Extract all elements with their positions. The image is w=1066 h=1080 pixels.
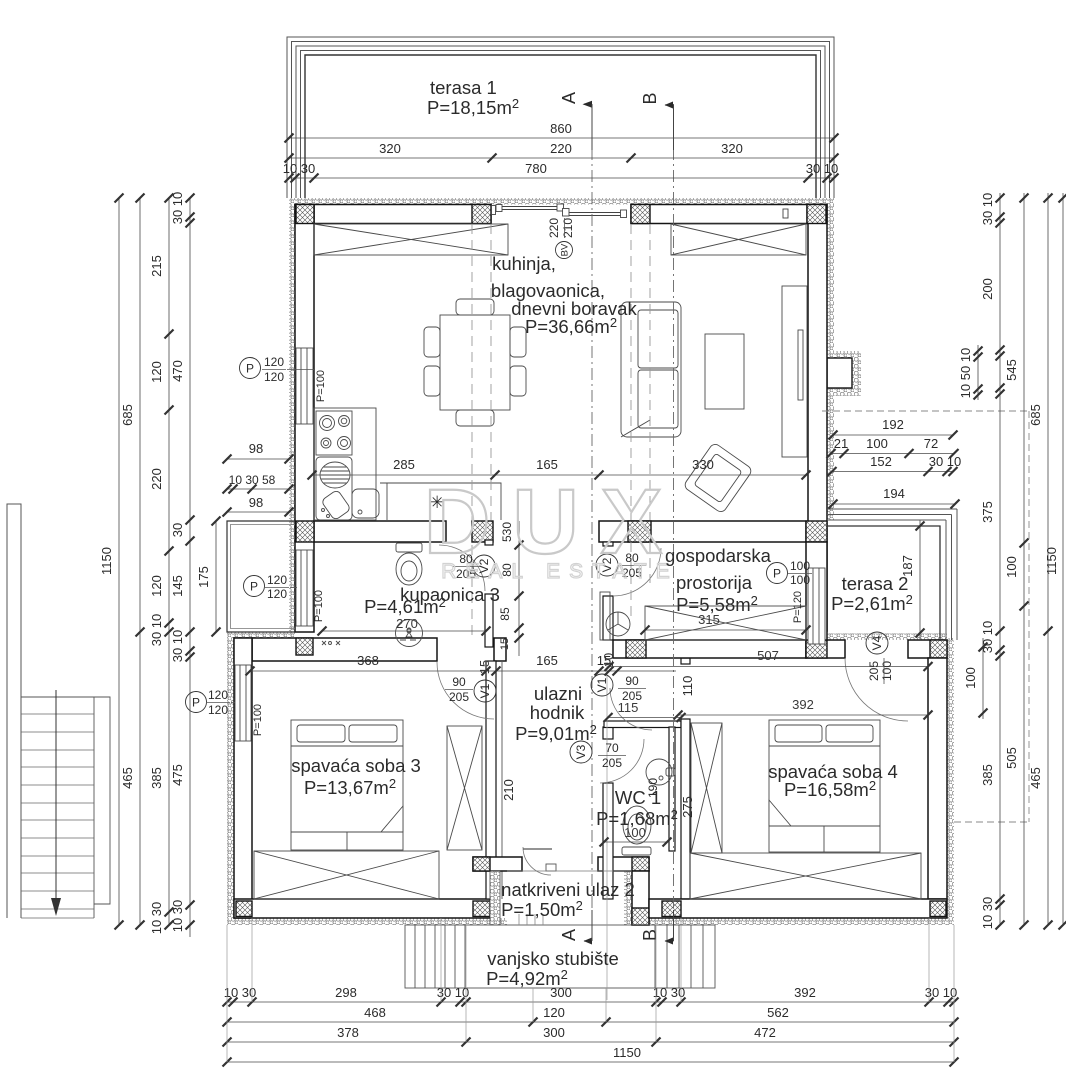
svg-text:375: 375 xyxy=(980,501,995,523)
bed 4 xyxy=(769,720,880,852)
section label A bottom xyxy=(559,910,592,945)
gospodarska bench crossed xyxy=(645,606,806,640)
svg-text:10 30: 10 30 xyxy=(170,900,185,933)
svg-text:P=4,92m2: P=4,92m2 xyxy=(486,967,568,989)
left stair treads xyxy=(21,714,94,918)
WC sink xyxy=(646,759,675,785)
porch right wall xyxy=(632,871,649,925)
svg-text:152: 152 xyxy=(870,454,892,469)
svg-text:10 30: 10 30 xyxy=(224,985,257,1000)
svg-text:90: 90 xyxy=(452,675,466,689)
svg-text:21: 21 xyxy=(834,436,848,451)
svg-text:210: 210 xyxy=(561,218,575,238)
svg-text:hodnik: hodnik xyxy=(530,702,585,723)
rotated dim texts misc xyxy=(501,676,695,818)
hall east wall lower segment xyxy=(603,783,613,899)
svg-text:110: 110 xyxy=(680,676,695,697)
stove xyxy=(316,411,352,455)
bedroom3 east partition xyxy=(486,661,496,899)
svg-text:spavaća soba 3: spavaća soba 3 xyxy=(291,755,421,776)
svg-text:120: 120 xyxy=(543,1005,565,1020)
door bedroom3 V1 arc xyxy=(437,662,494,719)
terrace 1 railing outer lines xyxy=(287,37,834,198)
column porch right bottom xyxy=(632,908,649,925)
svg-text:270: 270 xyxy=(396,616,418,631)
svg-text:terasa 1: terasa 1 xyxy=(430,77,497,98)
svg-text:P=36,66m2: P=36,66m2 xyxy=(525,315,617,337)
insulation niche bottom strip xyxy=(227,632,295,639)
dim 100 WC xyxy=(604,841,667,843)
svg-text:30 10: 30 10 xyxy=(806,161,839,176)
door terasa2 V4 arc xyxy=(845,658,908,721)
window niche left 120 xyxy=(296,550,313,626)
svg-text:562: 562 xyxy=(767,1005,789,1020)
svg-text:300: 300 xyxy=(543,1025,565,1040)
bedroom3 top wall right part xyxy=(494,638,506,661)
svg-text:30 10: 30 10 xyxy=(170,192,185,225)
svg-text:165: 165 xyxy=(536,457,558,472)
entrance door arc xyxy=(523,847,551,875)
niche outer rect xyxy=(227,521,295,632)
terasa2 south wall right part xyxy=(908,640,947,658)
living top cabinets crossed xyxy=(671,224,806,255)
svg-text:V1: V1 xyxy=(478,683,492,698)
dim 270 kupaonica xyxy=(322,630,486,632)
svg-text:P: P xyxy=(192,696,200,710)
svg-text:100: 100 xyxy=(866,436,888,451)
column gospodarska west xyxy=(628,521,651,542)
svg-text:100: 100 xyxy=(790,559,810,573)
chimney hole xyxy=(827,358,852,388)
left exterior wall lower xyxy=(234,638,252,918)
svg-text:30 10: 30 10 xyxy=(149,614,164,647)
bathroom floor drain circle xyxy=(396,620,423,647)
door gospodarska V2 arc xyxy=(613,548,661,596)
column right wall junction xyxy=(806,521,827,542)
section line B xyxy=(673,104,675,941)
entrance door leaf xyxy=(523,848,552,850)
svg-text:10 30: 10 30 xyxy=(283,161,316,176)
insulation left wall upper xyxy=(289,198,295,632)
partition kupaonica east jamb top xyxy=(485,540,493,545)
svg-text:120: 120 xyxy=(267,587,287,601)
section line A xyxy=(591,104,593,941)
svg-text:330: 330 xyxy=(692,457,714,472)
svg-text:P=100: P=100 xyxy=(252,704,264,736)
svg-text:120: 120 xyxy=(149,575,164,597)
svg-text:860: 860 xyxy=(550,121,572,136)
bedroom3 top wall left part xyxy=(252,638,437,661)
svg-text:1150: 1150 xyxy=(99,547,114,575)
top wall left segment xyxy=(295,205,491,224)
column porch stub left xyxy=(473,857,490,871)
insulation right wall lower xyxy=(947,638,954,925)
svg-text:30 10: 30 10 xyxy=(925,985,958,1000)
svg-text:prostorija: prostorija xyxy=(676,572,753,593)
svg-text:205: 205 xyxy=(449,690,469,704)
kitchen top cabinets crossed xyxy=(314,224,508,255)
svg-text:10 30: 10 30 xyxy=(653,985,686,1000)
insulation bottom left wing xyxy=(227,918,507,925)
svg-text:A: A xyxy=(559,92,579,104)
external stairs outline xyxy=(405,925,715,988)
insulation right wall upper xyxy=(827,198,834,351)
V4 rotated labels xyxy=(867,661,894,681)
sliding door panel 1 xyxy=(492,204,789,218)
porch left insulation band xyxy=(490,871,500,925)
svg-text:120: 120 xyxy=(264,355,284,369)
bedroom3 wardrobe low crossed xyxy=(254,851,439,899)
svg-text:90: 90 xyxy=(625,674,639,688)
svg-text:165: 165 xyxy=(536,653,558,668)
svg-text:192: 192 xyxy=(882,417,904,432)
svg-text:P=5,58m2: P=5,58m2 xyxy=(676,593,758,615)
door WC V3 arc xyxy=(600,739,644,783)
svg-text:120: 120 xyxy=(208,703,228,717)
column porch stub right xyxy=(632,857,649,871)
bedroom4 west wall jamb xyxy=(681,658,690,664)
top wall right segment xyxy=(631,205,827,224)
svg-text:275: 275 xyxy=(680,796,695,818)
svg-text:507: 507 xyxy=(757,648,779,663)
insulation right wall mid xyxy=(827,396,834,520)
terasa2 railing horizontals xyxy=(827,509,957,640)
svg-text:220: 220 xyxy=(149,468,164,490)
svg-text:210: 210 xyxy=(501,779,516,801)
svg-text:465: 465 xyxy=(1028,767,1043,789)
left exterior wall upper xyxy=(295,205,314,633)
column at left wall junction xyxy=(296,521,314,542)
gospodarska west wall lower xyxy=(603,596,613,640)
svg-text:P: P xyxy=(250,580,258,594)
WC toilet xyxy=(622,806,651,855)
svg-text:100: 100 xyxy=(790,573,810,587)
WC north wall xyxy=(604,721,681,728)
dim 392 bedroom4 xyxy=(678,714,928,716)
column mid (corridor west) xyxy=(472,521,493,542)
bedroom3 bottom wall xyxy=(234,899,490,918)
dining chairs xyxy=(424,299,526,426)
svg-text:120: 120 xyxy=(267,573,287,587)
WC west jamb xyxy=(603,727,613,739)
svg-text:10 30 58: 10 30 58 xyxy=(229,473,276,487)
stairs risers left xyxy=(415,925,465,988)
svg-text:120: 120 xyxy=(149,361,164,383)
porch steps xyxy=(519,914,543,925)
svg-text:B: B xyxy=(640,929,660,941)
svg-text:DUX: DUX xyxy=(424,471,684,573)
section label B top xyxy=(640,92,674,150)
svg-text:V1: V1 xyxy=(595,677,609,692)
left stair outline xyxy=(21,697,110,904)
svg-text:10 30: 10 30 xyxy=(980,897,995,930)
gospodarska west wall upper jamb xyxy=(603,542,613,546)
TV cabinet xyxy=(782,286,807,457)
svg-text:30: 30 xyxy=(170,523,185,537)
bedroom3 tall wardrobe crossed xyxy=(447,726,482,850)
svg-text:15: 15 xyxy=(477,660,492,674)
svg-text:P=9,01m2: P=9,01m2 xyxy=(515,722,597,744)
svg-text:ulazni: ulazni xyxy=(534,683,582,704)
svg-text:P=100: P=100 xyxy=(315,370,327,402)
svg-text:B: B xyxy=(640,92,660,104)
svg-text:545: 545 xyxy=(1004,359,1019,381)
svg-text:120: 120 xyxy=(264,370,284,384)
column gosp bottom xyxy=(626,640,646,658)
gospodarska east wall xyxy=(806,542,827,640)
svg-text:1150: 1150 xyxy=(613,1045,641,1060)
gospodarska washer xyxy=(606,612,630,636)
dim 507 xyxy=(609,666,928,668)
porch right stub wall xyxy=(598,857,649,871)
svg-text:468: 468 xyxy=(364,1005,386,1020)
vertical mini chain x519 xyxy=(518,521,520,656)
column right wing NE xyxy=(930,640,947,658)
column b3-top at old wall xyxy=(296,638,313,655)
svg-text:A: A xyxy=(559,929,579,941)
insulation chimney wrap xyxy=(827,351,861,396)
svg-text:100: 100 xyxy=(1004,556,1019,578)
kitchen counter vertical xyxy=(314,408,376,520)
svg-text:368: 368 xyxy=(357,653,379,668)
svg-text:30 10: 30 10 xyxy=(437,985,470,1000)
svg-text:215: 215 xyxy=(149,255,164,277)
svg-text:72: 72 xyxy=(924,436,938,451)
svg-text:P=4,61m2: P=4,61m2 xyxy=(364,595,446,617)
svg-text:320: 320 xyxy=(379,141,401,156)
dim 115 WC xyxy=(608,717,681,719)
svg-text:505: 505 xyxy=(1004,747,1019,769)
svg-text:320: 320 xyxy=(721,141,743,156)
dim 315 gospodarska xyxy=(645,629,806,631)
svg-text:378: 378 xyxy=(337,1025,359,1040)
svg-text:470: 470 xyxy=(170,360,185,382)
svg-text:V3: V3 xyxy=(574,744,588,759)
svg-text:BV: BV xyxy=(560,243,571,256)
terasa2 railing inner xyxy=(827,526,940,640)
svg-text:220: 220 xyxy=(547,218,561,238)
column b4 bottom left xyxy=(662,901,681,917)
window kitchen left 120 xyxy=(296,348,313,424)
svg-text:70: 70 xyxy=(605,741,619,755)
dim line 368/165 xyxy=(250,670,676,672)
svg-text:30 10: 30 10 xyxy=(980,621,995,654)
section label B bottom xyxy=(640,910,674,945)
living sofa xyxy=(621,302,681,437)
svg-text:194: 194 xyxy=(883,486,905,501)
window bedroom3 left 120 xyxy=(235,665,251,741)
partition kupaonica east lower xyxy=(485,594,493,647)
svg-text:natkriveni ulaz 2: natkriveni ulaz 2 xyxy=(501,879,635,900)
interior wall kitchen/bath left segment xyxy=(314,521,446,542)
svg-text:392: 392 xyxy=(794,985,816,1000)
svg-text:10 50 10: 10 50 10 xyxy=(958,348,973,399)
interior wall over gospodarska xyxy=(599,521,806,542)
svg-text:475: 475 xyxy=(170,764,185,786)
column top-right repaint xyxy=(807,205,826,224)
insulation porch right inner xyxy=(624,871,632,925)
fraction labels xyxy=(208,355,810,770)
svg-text:10 30: 10 30 xyxy=(149,902,164,935)
gospodarska bottom wall / terasa2 south wall band xyxy=(613,640,806,658)
svg-text:REAL ESTATE: REAL ESTATE xyxy=(441,560,678,583)
stairs risers right xyxy=(655,925,703,988)
svg-text:205: 205 xyxy=(867,661,881,681)
svg-text:P: P xyxy=(773,567,781,581)
porch left stub wall xyxy=(473,857,522,871)
svg-text:100: 100 xyxy=(880,661,894,681)
svg-text:30 10: 30 10 xyxy=(929,454,962,469)
svg-text:10: 10 xyxy=(601,653,616,667)
svg-text:205: 205 xyxy=(622,689,642,703)
dashed projection line top xyxy=(822,410,1029,412)
column top-left repaint xyxy=(296,205,314,224)
rotated window labels xyxy=(252,370,804,736)
svg-text:P=18,15m2: P=18,15m2 xyxy=(427,96,519,118)
insulation terasa2 south strip xyxy=(827,634,947,641)
insulation top wall xyxy=(289,198,834,205)
svg-text:gospodarska: gospodarska xyxy=(665,545,772,566)
svg-text:385: 385 xyxy=(980,764,995,786)
dashed projection line right xyxy=(1028,411,1030,822)
svg-text:1150: 1150 xyxy=(1044,547,1059,575)
right horizontal mini chains xyxy=(831,435,955,504)
dim line 285/165/330 xyxy=(312,474,806,476)
svg-text:465: 465 xyxy=(120,767,135,789)
partition second line xyxy=(501,661,503,899)
armchair rotated xyxy=(683,442,753,514)
svg-text:685: 685 xyxy=(120,404,135,426)
door bedroom4 V1 arc xyxy=(610,688,652,730)
svg-text:30 10: 30 10 xyxy=(170,630,185,663)
svg-text:P=13,67m2: P=13,67m2 xyxy=(304,776,396,798)
svg-text:145: 145 xyxy=(170,575,185,597)
svg-text:vanjsko stubište: vanjsko stubište xyxy=(487,948,619,969)
svg-text:205: 205 xyxy=(602,756,622,770)
bedroom4 bottom wall xyxy=(649,899,947,918)
svg-text:285: 285 xyxy=(393,457,415,472)
bathroom toilet xyxy=(396,543,422,585)
section label A top xyxy=(559,92,592,150)
svg-text:392: 392 xyxy=(792,697,814,712)
niche inner line xyxy=(231,525,296,629)
svg-text:P=16,58m2: P=16,58m2 xyxy=(784,778,876,800)
svg-text:100: 100 xyxy=(963,667,978,689)
column b3-bottomleft xyxy=(236,901,252,917)
extension lines bottom xyxy=(227,662,954,1062)
insulation bottom right wing xyxy=(649,918,954,925)
svg-text:98: 98 xyxy=(249,441,263,456)
BV rotated labels xyxy=(547,218,575,238)
terrace 1 inner rect xyxy=(305,55,816,198)
svg-text:P=1,50m2: P=1,50m2 xyxy=(501,898,583,920)
bed 3 xyxy=(291,720,403,850)
bedroom4 west wall xyxy=(681,719,690,899)
column terasa2 south left xyxy=(806,640,827,658)
right exterior wall lower xyxy=(928,658,947,899)
svg-text:P=100: P=100 xyxy=(313,590,325,622)
svg-text:kuhinja,: kuhinja, xyxy=(492,253,556,274)
kitchen sink unit xyxy=(316,457,387,521)
svg-text:WC 1: WC 1 xyxy=(615,787,661,808)
svg-text:298: 298 xyxy=(335,985,357,1000)
right exterior wall upper xyxy=(808,205,827,632)
column top-right xyxy=(807,205,826,224)
bedroom4 tall wardrobe crossed xyxy=(691,723,722,853)
svg-text:120: 120 xyxy=(208,688,228,702)
svg-text:V4: V4 xyxy=(870,635,884,650)
svg-text:P=120: P=120 xyxy=(792,591,804,623)
svg-text:terasa 2: terasa 2 xyxy=(842,573,909,594)
door kupaonica V2 arc xyxy=(439,545,485,591)
left stair direction arrow xyxy=(55,690,57,900)
dining table xyxy=(440,315,510,410)
column top b xyxy=(631,205,650,224)
garden wall strip xyxy=(7,504,21,918)
svg-text:220: 220 xyxy=(550,141,572,156)
left horizontal mini chains xyxy=(227,459,289,512)
svg-text:175: 175 xyxy=(196,566,211,588)
svg-text:P: P xyxy=(246,362,254,376)
svg-text:685: 685 xyxy=(1028,404,1043,426)
bedroom4 low wardrobe crossed xyxy=(690,853,921,899)
terasa2 south wall left part xyxy=(806,640,845,658)
column b4 bottom right xyxy=(930,901,946,917)
column b3-topleft corner xyxy=(234,638,252,661)
svg-text:472: 472 xyxy=(754,1025,776,1040)
dashed projection line bottom xyxy=(954,821,1029,823)
svg-text:200: 200 xyxy=(980,278,995,300)
svg-text:30 10: 30 10 xyxy=(980,193,995,226)
svg-text:15: 15 xyxy=(499,638,511,650)
svg-text:P=2,61m2: P=2,61m2 xyxy=(831,592,913,614)
svg-text:P=1,68m2: P=1,68m2 xyxy=(596,807,678,829)
column top-left xyxy=(296,205,314,224)
insulation left wall lower xyxy=(227,638,234,918)
svg-text:385: 385 xyxy=(149,767,164,789)
gospodarska shelf strip xyxy=(600,592,610,640)
column top a xyxy=(472,205,491,224)
WC east wall xyxy=(669,727,675,851)
kitchen counter bottom xyxy=(380,483,501,520)
coffee table xyxy=(705,334,744,409)
svg-text:780: 780 xyxy=(525,161,547,176)
window gospodarska east 120 xyxy=(808,568,825,644)
bathroom small symbols xyxy=(322,629,411,645)
svg-text:98: 98 xyxy=(249,495,263,510)
porch threshold line xyxy=(507,870,632,872)
svg-text:85: 85 xyxy=(498,607,512,621)
column b3-bottomright xyxy=(473,901,490,917)
